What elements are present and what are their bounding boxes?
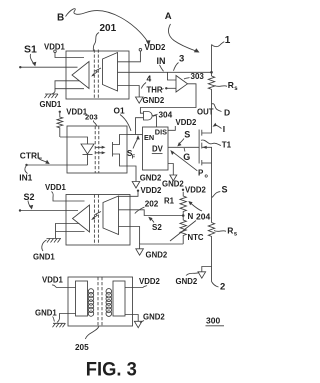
label 204 with arrow [188,201,210,222]
svg-text:205: 205 [75,343,89,352]
power rail right top [211,45,213,77]
ground GND1 (U202) [47,239,62,243]
isolation barrier dashed lines 201 [94,50,98,100]
svg-text:F: F [132,155,136,161]
svg-text:N: N [188,212,194,221]
label VDD1 (U202) with hook [45,183,66,198]
label 2 with leader [212,282,226,293]
svg-text:GND2: GND2 [143,96,165,105]
wire VDD1 pin to U202 [53,198,85,202]
svg-text:GND2: GND2 [176,277,198,286]
svg-text:IN: IN [157,56,166,66]
LED D203 [81,144,94,165]
label IN with leader [157,56,166,71]
label S1 with arrow [24,44,37,67]
transformer T205 box [68,277,133,326]
label G with tick [183,148,190,162]
node N junction [182,214,185,217]
label Po with arrow to driver output [170,150,208,180]
label B [57,9,151,46]
ground GND1 (U201) [45,89,59,98]
wire U202 gnd pin [119,227,140,245]
op-amp comparator 303 [176,76,188,93]
ground GND2 (transformer) [134,321,142,327]
svg-text:VDD2: VDD2 [185,185,206,194]
svg-text:3: 3 [179,54,184,65]
svg-text:204: 204 [196,212,210,222]
svg-text:1: 1 [225,35,231,46]
leader arrow from A [168,24,196,51]
svg-text:VDD2: VDD2 [139,277,160,286]
light arrows 203 [96,146,106,155]
node S2 dot [19,209,21,211]
label O1 with leader [114,106,132,132]
pin THR stub [166,87,176,89]
label GND1 (transformer) with leader [35,309,66,328]
phototransistor Q203 [113,135,128,167]
wire IN net from U201 to rail [118,71,212,73]
isolation barrier dashed lines 202 [94,195,98,246]
svg-text:IN1: IN1 [19,172,32,182]
svg-text:THR: THR [147,86,163,95]
label S2 (node) with arrow [148,217,162,232]
wire comparator output OUT [140,84,196,113]
wire R203 to LED [60,137,88,144]
svg-text:303: 303 [191,72,205,81]
label CTRL with arrow [20,151,50,165]
ground GND2 (NTC) [136,249,144,255]
label SF with arrow [127,135,140,161]
svg-text:P: P [198,169,204,178]
svg-text:VDD1: VDD1 [66,107,87,116]
wire VDD1 pin to U201 [55,53,84,58]
svg-text:2: 2 [220,282,225,293]
wire U203 emitter to GND2 [127,166,136,182]
label GND1 (U202) with leader [33,240,55,262]
svg-text:s: s [234,232,238,238]
resistor Rs upper [208,76,214,92]
receiver triangle 202 [73,205,90,232]
wire NTC to GND2 [140,244,184,249]
svg-text:EN: EN [144,133,154,142]
svg-text:202: 202 [145,200,159,209]
label A [165,11,200,53]
svg-text:300: 300 [206,316,220,326]
svg-text:4: 4 [147,74,152,84]
transistor T1 [199,130,211,166]
secondary winding core [113,281,125,316]
ground GND2 (DV) [170,175,177,181]
resistor R1 [180,192,186,216]
label GND2 (rail) with leader [176,273,200,287]
label 202 with leader [135,200,159,214]
label Rs lower with leader [214,226,238,238]
svg-text:NTC: NTC [188,233,204,242]
receiver triangle 201 [72,62,89,89]
label 4 with leader [141,74,151,89]
wire rail lower [211,239,213,282]
label S2 with arrow [24,192,35,209]
driver DV box [143,127,169,170]
svg-text:GND1: GND1 [35,309,57,318]
label I with arrow [213,123,226,134]
svg-text:DV: DV [152,145,164,154]
svg-text:I: I [223,124,225,134]
wire GND1 pins of U202 [56,224,85,239]
terminal VDD2 (U202) [137,190,139,192]
label 205 with leader [75,326,99,352]
label D with leader [212,104,231,118]
label IN1 with leader [19,166,32,182]
label VDD1 (transformer) with hook [42,276,63,288]
svg-text:GND2: GND2 [146,251,168,260]
terminal VDD1 (R203) [59,111,61,113]
and-gate 304 [144,112,153,121]
wire and-gate output to DIS [152,116,156,127]
label 203 with leader [85,112,98,126]
primary coil [88,289,93,317]
terminal VDD2 (R1) [182,189,184,191]
wire GND2 stub (rail) [202,267,212,272]
thermistor NTC [170,216,196,245]
label DV underlined [152,145,164,154]
ground GND2 (U203) [132,182,140,189]
driver trapezoid 201 [103,53,118,92]
svg-text:GND2: GND2 [140,174,162,183]
label 1 with leader [212,35,231,47]
wire U201 to GND2 [118,86,140,98]
node S1 dot [19,66,21,68]
svg-text:201: 201 [100,23,117,34]
wire and-gate lower input [136,118,144,135]
barrier signal arrow 201 [91,68,101,77]
wire source rail [211,163,213,223]
barrier signal arrow 202 [91,212,101,221]
terminal VDD2 top [139,48,142,51]
svg-text:R: R [228,80,234,90]
wire S2 input [20,210,78,212]
terminal VDD1 top [54,50,57,53]
svg-text:VDD2: VDD2 [141,186,162,195]
svg-text:S: S [184,129,190,139]
label S with arrow (gate) [177,129,190,146]
driver trapezoid 202 [103,196,119,235]
ground GND2 (comparator) [136,97,144,103]
secondary coil [106,289,112,317]
svg-text:VDD1: VDD1 [45,183,66,192]
wire U201 to VDD2 (pin) [118,51,141,62]
svg-text:R: R [227,226,233,236]
svg-text:s: s [234,86,238,92]
isolator U201 box [66,51,129,99]
svg-text:VDD1: VDD1 [42,276,63,285]
label 303 [184,72,204,81]
svg-text:o: o [205,174,209,180]
svg-text:O1: O1 [114,106,125,116]
wire U202 VDD2 pin [119,192,139,197]
leader arrow from B [66,9,148,42]
label 300 underlined [206,316,225,326]
wire IN branch to comparator [168,72,177,80]
svg-text:GND2: GND2 [162,180,184,189]
svg-text:GND1: GND1 [40,100,62,109]
svg-text:S1: S1 [24,44,37,56]
isolation barrier dashed lines 205 [98,277,102,326]
label S (source) with leader [212,185,228,198]
svg-text:VDD2: VDD2 [145,43,166,52]
wire CTRL input [27,164,88,166]
svg-text:S: S [222,185,228,195]
node CTRL dot [25,164,27,166]
label T1 with leader [201,140,232,149]
label GND2 (transformer) with leader [140,313,165,323]
svg-text:GND2: GND2 [143,313,165,322]
svg-text:VDD1: VDD1 [44,43,65,52]
label Rs upper with leader [215,80,239,92]
wire S1 input [20,66,77,68]
svg-text:D: D [224,108,230,118]
wire VDD1 to transformer [57,287,76,289]
wire GND2 from transformer [125,315,138,322]
wire EN net from U203 [127,134,143,136]
svg-text:R1: R1 [164,197,175,206]
svg-text:FIG. 3: FIG. 3 [86,360,137,381]
wire DV gate output [168,146,199,148]
resistor R203 [57,113,63,137]
wire VDD2 pin of DV [168,126,175,130]
svg-text:S2: S2 [24,192,35,202]
isolation barrier dashed lines 203 [95,126,99,173]
svg-text:T1: T1 [222,140,232,149]
label 3 with leader [174,54,185,71]
svg-text:304: 304 [159,111,173,120]
label 201 with leader [93,23,116,51]
label THR [147,86,164,95]
label 304 with leader [153,111,173,120]
resistor Rs lower [208,223,214,239]
wire VDD2 from transformer [125,287,143,289]
optocoupler U203 box [67,126,127,173]
wire node N to U202 [119,210,184,216]
svg-text:VDD2: VDD2 [176,118,197,127]
wire GND1 pins of U201 [55,81,84,90]
junction IN-rail [210,71,213,74]
ground GND2 (rail) [198,272,206,278]
label VDD2 (transformer) with hook [139,277,160,288]
svg-text:GND1: GND1 [33,253,55,262]
wire GND1 to transformer [57,314,76,323]
wire DV gnd pin [168,164,173,176]
isolator U202 box [66,195,130,246]
svg-text:A: A [165,11,172,22]
svg-text:B: B [57,13,64,24]
svg-text:DIS: DIS [155,127,167,136]
wire rail to drain [202,92,212,133]
primary winding core [76,281,88,316]
svg-text:S2: S2 [152,223,162,232]
